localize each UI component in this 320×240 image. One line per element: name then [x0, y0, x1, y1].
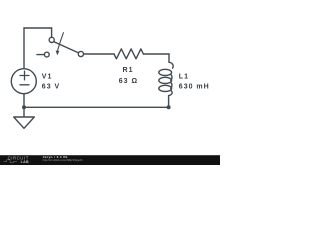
V1 plus sign [20, 71, 29, 80]
svg-text:LAB: LAB [21, 160, 29, 164]
label R1 [123, 67, 134, 74]
label V1 value 63 V [42, 84, 60, 91]
switch SW1 right throw terminal [78, 51, 83, 56]
watermark CircuitLab logo [4, 155, 29, 164]
V1 minus sign [20, 84, 29, 86]
watermark footer bar [0, 155, 220, 165]
node junction dot right [167, 105, 171, 109]
wire inductor bottom to rail [168, 96, 170, 108]
switch SW1 left throw terminal [44, 52, 49, 57]
wire left throw stub [37, 54, 44, 56]
ground [14, 117, 35, 128]
label L1 value 630 mH [179, 84, 210, 91]
wire resistor to top-right corner [143, 53, 169, 55]
watermark url text [43, 158, 83, 162]
svg-text:L1: L1 [179, 74, 189, 81]
wire top rail [24, 27, 52, 29]
svg-text:http:∕∕circuitlab.com∕c68tjr∕3: http:∕∕circuitlab.com∕c68tjr∕33tga4h [43, 158, 83, 162]
svg-text:V1: V1 [42, 74, 53, 81]
wire V1 bottom to rail [23, 94, 25, 108]
svg-text:63 Ω: 63 Ω [119, 78, 138, 85]
switch SW1 common terminal [49, 37, 54, 42]
wire down to inductor [168, 54, 170, 62]
label V1 [42, 74, 53, 81]
wire V1 top to top rail corner [23, 28, 25, 69]
node junction dot left [22, 105, 26, 109]
wire down to switch common [51, 28, 53, 37]
svg-text:R1: R1 [123, 67, 134, 74]
svg-text:63 V: 63 V [42, 84, 60, 91]
voltage source V1 body [11, 69, 36, 94]
inductor L1 [159, 62, 173, 95]
wire bottom rail [24, 106, 169, 108]
watermark user text [43, 155, 69, 159]
wire switch to resistor [84, 53, 114, 55]
svg-text:630 mH: 630 mH [179, 84, 210, 91]
switch SW1 lever [54, 42, 78, 53]
resistor R1 [114, 49, 143, 59]
wire ground stub [23, 107, 25, 117]
switch SW1 actuation arrow [56, 33, 64, 56]
label L1 [179, 74, 189, 81]
label R1 value 63 ohm [119, 78, 138, 85]
